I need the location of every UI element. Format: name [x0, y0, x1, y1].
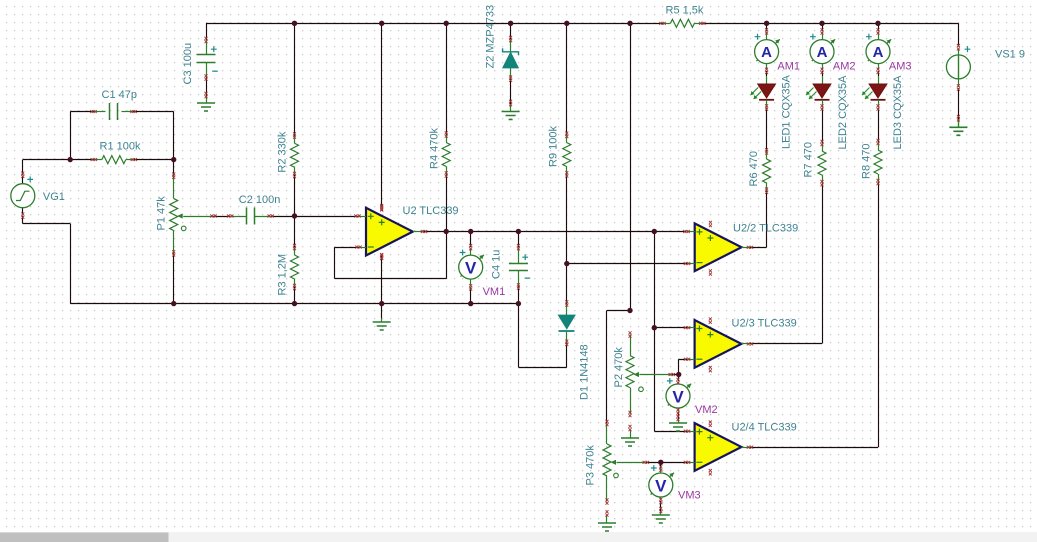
wire comparator plus-input column — [654, 232, 687, 432]
wire R9 branch — [566, 23, 568, 263]
svg-text:LED1 CQX35A: LED1 CQX35A — [781, 74, 793, 149]
svg-text:V: V — [672, 388, 684, 407]
svg-text:VG1: VG1 — [43, 191, 65, 203]
wire VM3 stub — [660, 462, 662, 511]
wire P3 wiper node to U2/4 inverting — [646, 462, 687, 464]
ground below U2 — [373, 318, 391, 330]
wire VG1 return — [23, 216, 71, 304]
wire Z2 branch — [510, 23, 512, 107]
wire R6 to U2/2 output — [750, 191, 767, 248]
resistor R5 — [659, 19, 705, 27]
svg-text:R2 330k: R2 330k — [277, 131, 289, 172]
wire R4 branch — [446, 23, 448, 278]
voltmeter VM1 — [459, 244, 484, 291]
label VM2 — [695, 404, 718, 416]
svg-text:LED3 CQX35A: LED3 CQX35A — [892, 75, 904, 150]
svg-text:C1 47p: C1 47p — [102, 89, 137, 101]
capacitor C1 — [90, 103, 136, 120]
label VG1 — [43, 191, 65, 203]
label C3 100u — [182, 43, 194, 85]
svg-text:D1 1N4148: D1 1N4148 — [579, 344, 591, 400]
wire VS1 ground stub — [958, 120, 960, 128]
svg-text:R1 100k: R1 100k — [100, 141, 141, 153]
diode D1 — [558, 300, 575, 346]
svg-text:A: A — [873, 44, 884, 61]
label LED2 CQX35A — [837, 75, 849, 150]
label U2/3 TLC339 — [732, 317, 797, 329]
ground below VM2 — [669, 415, 687, 431]
wire P2 wiper node to U2/3 inverting — [672, 359, 687, 374]
wire R1 link — [23, 160, 174, 175]
svg-text:C4 1u: C4 1u — [491, 250, 503, 279]
wire node D1 to U2/2 inverting input — [567, 263, 687, 265]
label R9 100k — [548, 126, 560, 167]
label AM1 — [777, 60, 800, 72]
label AM3 — [889, 60, 912, 72]
label C4 1u — [491, 250, 503, 279]
wire D1 cathode to C4 bottom — [518, 304, 566, 368]
svg-text:U2 TLC339: U2 TLC339 — [403, 205, 459, 217]
LED LED3 — [862, 76, 887, 111]
wire R2 branch — [294, 23, 296, 247]
wire C1 top link — [70, 112, 174, 160]
label R8 470 — [861, 144, 873, 179]
ground below VS1 — [949, 115, 967, 135]
label R7 470 — [803, 142, 815, 177]
svg-text:LED2 CQX35A: LED2 CQX35A — [837, 75, 849, 150]
label P3 470k — [585, 445, 597, 486]
resistor R7 — [818, 140, 826, 187]
svg-text:C3 100u: C3 100u — [182, 43, 194, 85]
label C1 47p — [102, 89, 137, 101]
ground below P2 — [621, 425, 639, 446]
label R5 1,5k — [666, 5, 704, 17]
zener diode Z2 — [503, 36, 519, 82]
svg-text:VM3: VM3 — [678, 490, 701, 502]
resistor R9 — [563, 132, 571, 178]
ground below VM3 — [652, 507, 670, 523]
label AM2 — [833, 60, 856, 72]
svg-text:R3 1,2M: R3 1,2M — [277, 254, 289, 296]
wire top supply rail — [206, 23, 958, 25]
op-amp comparator U2/3 — [684, 317, 753, 372]
wire bottom ground rail — [70, 303, 518, 305]
resistor R3 — [291, 244, 299, 290]
wire D1 anode stub — [566, 264, 568, 304]
svg-text:VM2: VM2 — [695, 404, 718, 416]
svg-text:A: A — [817, 44, 828, 61]
ground below P3 — [598, 510, 616, 531]
wire R8 to U2/4 output — [750, 182, 879, 448]
wire C3 branch — [206, 23, 208, 99]
svg-text:R4 470k: R4 470k — [429, 128, 441, 169]
ground below Z2 — [502, 100, 520, 120]
wire R7 to U2/3 output — [750, 183, 823, 343]
svg-text:VS1 9: VS1 9 — [995, 49, 1025, 61]
resistor R2 — [291, 132, 299, 178]
LED LED1 — [751, 76, 776, 111]
svg-text:U2/3 TLC339: U2/3 TLC339 — [732, 317, 797, 329]
LED LED2 — [806, 76, 831, 111]
label VM1 — [483, 286, 506, 298]
resistor R1 — [91, 156, 137, 164]
wire AM2 branch — [822, 23, 824, 143]
resistor R4 — [442, 131, 450, 177]
svg-text:P1 47k: P1 47k — [156, 196, 168, 231]
svg-text:U2/2 TLC339: U2/2 TLC339 — [733, 222, 798, 234]
wire P1 branch — [173, 160, 175, 304]
label R4 470k — [429, 128, 441, 169]
label R1 100k — [100, 141, 141, 153]
ammeter AM2 — [810, 28, 835, 74]
ammeter AM1 — [755, 28, 780, 74]
wire P1 wiper to C2 — [214, 216, 231, 218]
svg-text:V: V — [465, 259, 477, 278]
wire x630 rail to P2/P3 — [607, 23, 631, 423]
wire VS1 branch — [958, 23, 960, 119]
potentiometer P2 — [626, 331, 675, 417]
wire R3 to bottom rail — [294, 287, 296, 304]
label Z2 MZP4733 — [485, 5, 497, 69]
label R2 330k — [277, 131, 289, 172]
capacitor C3 — [197, 37, 218, 81]
label C2 100n — [239, 194, 281, 206]
svg-text:R9 100k: R9 100k — [548, 126, 560, 167]
wire U2 feedback loop — [335, 247, 447, 279]
label D1 1N4148 — [579, 344, 591, 400]
svg-text:P2 470k: P2 470k — [613, 347, 625, 388]
svg-text:AM1: AM1 — [777, 60, 800, 72]
svg-text:Z2 MZP4733: Z2 MZP4733 — [485, 5, 497, 69]
svg-text:U2/4 TLC339: U2/4 TLC339 — [732, 421, 797, 433]
label LED1 CQX35A — [781, 74, 793, 149]
svg-text:AM2: AM2 — [833, 60, 856, 72]
svg-text:VM1: VM1 — [483, 286, 506, 298]
label P2 470k — [613, 347, 625, 388]
svg-text:V: V — [655, 477, 667, 496]
svg-text:C2 100n: C2 100n — [239, 194, 281, 206]
wire U2 output bus — [424, 231, 687, 233]
label R6 470 — [748, 151, 760, 186]
wire C2 to node A — [271, 216, 358, 218]
svg-text:R7 470: R7 470 — [803, 142, 815, 177]
resistor R6 — [763, 148, 771, 194]
svg-text:R8 470: R8 470 — [861, 144, 873, 179]
potentiometer P1 — [170, 173, 217, 257]
ammeter AM3 — [866, 28, 891, 74]
wire AM3 branch — [878, 23, 880, 142]
label LED3 CQX35A — [892, 75, 904, 150]
wire VM2 stub — [678, 375, 680, 420]
resistor R8 — [874, 139, 882, 185]
voltmeter VM2 — [666, 378, 691, 415]
label U2/4 TLC339 — [732, 421, 797, 433]
svg-text:R6 470: R6 470 — [748, 151, 760, 186]
label U2 TLC339 — [403, 205, 459, 217]
svg-text:A: A — [761, 44, 772, 61]
label VM3 — [678, 490, 701, 502]
wire VM1 branch — [470, 232, 472, 304]
wire AM1 branch — [766, 23, 768, 151]
op-amp comparator U2/2 — [683, 221, 753, 276]
potentiometer P3 — [603, 420, 649, 505]
wire C4 branch — [518, 232, 520, 304]
op-amp comparator U2 — [354, 204, 427, 260]
capacitor C2 — [227, 208, 274, 225]
svg-text:AM3: AM3 — [889, 60, 912, 72]
label P1 47k — [156, 196, 168, 231]
label VS1 9 — [995, 49, 1025, 61]
capacitor C4 — [509, 244, 530, 290]
battery VS1 — [946, 44, 970, 91]
label U2/2 TLC339 — [733, 222, 798, 234]
horizontal scrollbar — [0, 532, 1037, 542]
label R3 1,2M — [277, 254, 289, 296]
voltage generator VG1 — [11, 172, 35, 219]
svg-text:R5 1,5k: R5 1,5k — [666, 5, 704, 17]
ground below C3 — [197, 92, 215, 111]
voltmeter VM3 — [649, 465, 674, 504]
op-amp comparator U2/4 — [684, 421, 753, 476]
svg-text:P3 470k: P3 470k — [585, 445, 597, 486]
wire U2 supply branch — [381, 23, 383, 318]
